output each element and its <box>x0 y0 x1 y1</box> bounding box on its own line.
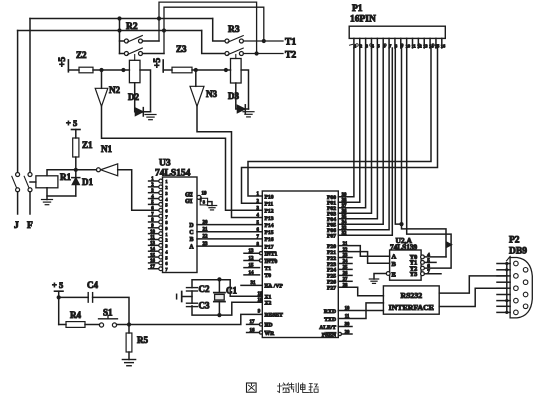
svg-text:5: 5 <box>165 203 168 208</box>
resistor Z2 <box>79 67 93 73</box>
svg-text:16: 16 <box>150 259 155 264</box>
svg-text:RESET: RESET <box>265 313 284 319</box>
wire C4 to reset node <box>93 297 129 324</box>
wire Z3 to coil D3 <box>192 69 231 71</box>
svg-text:/VP: /VP <box>273 284 284 290</box>
capacitor C3 <box>187 302 198 304</box>
svg-text:5: 5 <box>377 43 380 48</box>
svg-text:6: 6 <box>165 261 168 266</box>
wire P27 to RS232 interface <box>338 287 383 295</box>
svg-text:Z3: Z3 <box>176 44 187 54</box>
svg-text:G2: G2 <box>185 193 193 199</box>
caption 路 <box>309 384 318 393</box>
svg-text:C3: C3 <box>199 301 210 311</box>
svg-text:17: 17 <box>150 265 155 270</box>
wire Z3 node to N3 input <box>195 70 197 86</box>
wire rail B drop to R3-b <box>202 31 225 54</box>
svg-text:RS232: RS232 <box>400 291 422 300</box>
crystal C1 <box>214 292 225 294</box>
svg-text:9: 9 <box>165 226 168 231</box>
svg-text:21: 21 <box>203 228 209 233</box>
svg-text:2: 2 <box>165 185 167 190</box>
svg-text:13: 13 <box>423 43 428 48</box>
U3 output pin 1 <box>149 180 161 182</box>
svg-text:3: 3 <box>366 43 369 48</box>
svg-text:20: 20 <box>203 220 209 225</box>
svg-text:16: 16 <box>441 43 446 48</box>
wire enable box to ground <box>208 202 212 206</box>
ground after D2 diode <box>145 114 156 116</box>
relay coil D2 <box>129 60 140 82</box>
contact R3-a <box>225 39 229 43</box>
wire top loop outer <box>159 2 257 53</box>
U3 output pin 17 <box>149 268 161 270</box>
svg-text:P1: P1 <box>352 4 363 14</box>
resistor Z1 <box>73 138 79 157</box>
svg-text:10: 10 <box>150 230 155 235</box>
junction dots on rails <box>157 16 161 20</box>
svg-text:D2: D2 <box>128 92 139 102</box>
svg-text:13: 13 <box>249 249 255 254</box>
svg-text:N1: N1 <box>101 144 112 154</box>
wire rail A drop to R3-a <box>213 19 225 42</box>
svg-text:T1: T1 <box>265 266 272 272</box>
MCU pin 13 INT1 <box>259 252 262 255</box>
svg-text:P16: P16 <box>265 237 274 243</box>
mechanical link D2 to R2 <box>134 55 136 61</box>
svg-text:X2: X2 <box>265 301 272 307</box>
wire +5 branch to C4 <box>59 296 88 298</box>
DB9 holes left column <box>514 261 519 266</box>
svg-text:7: 7 <box>165 267 168 272</box>
U3 output pin 15 <box>149 256 161 258</box>
MCU pin 16 WR <box>259 331 262 334</box>
svg-text:16: 16 <box>250 328 256 333</box>
DB9 shell <box>510 258 532 318</box>
svg-text:Z2: Z2 <box>76 50 87 60</box>
capacitor C2 <box>187 287 198 289</box>
wire R5 to ground <box>128 352 130 360</box>
wire Z2 to coil D2 <box>93 69 129 71</box>
svg-text:C: C <box>189 230 193 236</box>
svg-text:P12: P12 <box>265 209 274 215</box>
wire T2 <box>243 53 283 55</box>
svg-text:D: D <box>189 223 193 229</box>
U3 output pin 13 <box>149 244 161 246</box>
header P1 body <box>349 26 445 38</box>
svg-text:P2: P2 <box>509 236 520 246</box>
U3 output pin 16 <box>149 262 161 264</box>
svg-text:8: 8 <box>165 220 168 225</box>
U2 enable bubble and ground <box>386 272 390 276</box>
svg-text:P14: P14 <box>265 223 274 229</box>
wire D3 bottom to diode <box>236 83 249 109</box>
wire +5 to Z1 <box>75 130 77 139</box>
svg-text:EA: EA <box>265 284 273 290</box>
wire RS232 to DB9 upper <box>439 276 507 293</box>
wire RS232 to DB9 lower <box>439 288 507 306</box>
svg-text:P07: P07 <box>327 234 336 240</box>
svg-text:P10: P10 <box>265 194 274 200</box>
svg-text:U3: U3 <box>159 159 171 169</box>
wire +5 down to R4 <box>58 291 60 324</box>
svg-text:RD: RD <box>265 323 273 329</box>
wire P1 pin15 to MCU P11 <box>242 48 438 203</box>
U3 output pin 7 <box>149 215 161 217</box>
wire R4 to S1 <box>85 324 99 326</box>
svg-text:E: E <box>392 272 396 279</box>
svg-text:6: 6 <box>165 208 168 213</box>
caption 电 <box>301 383 309 393</box>
svg-text:1: 1 <box>165 179 167 184</box>
svg-text:3: 3 <box>165 191 168 196</box>
svg-text:T1: T1 <box>285 38 296 48</box>
svg-text:C1: C1 <box>226 286 237 296</box>
capacitor C4 <box>87 293 89 303</box>
svg-text:+5: +5 <box>58 57 68 67</box>
svg-text:14: 14 <box>249 271 255 276</box>
diode D1 <box>75 170 77 196</box>
wire Z1 to node <box>75 157 77 170</box>
svg-text:P15: P15 <box>265 230 274 236</box>
caption 制 <box>289 383 298 393</box>
inverter N2 <box>95 88 108 106</box>
wire net B (lower horizontal rail y=30.5) <box>18 30 202 32</box>
svg-text:13: 13 <box>150 242 155 247</box>
U3 output pin 10 <box>149 233 161 235</box>
inverter N1 (points left) <box>101 164 118 176</box>
svg-text:16PIN: 16PIN <box>350 15 376 25</box>
svg-text:+ 5: + 5 <box>66 118 77 128</box>
MCU pin 15 T1 <box>244 267 260 269</box>
svg-text:11: 11 <box>150 236 155 241</box>
U3 output pin 4 <box>149 198 161 200</box>
resistor Z3 <box>172 67 192 73</box>
U3 output pin 11 <box>149 239 161 241</box>
svg-text:PSEN: PSEN <box>322 332 336 338</box>
svg-text:4: 4 <box>165 249 168 254</box>
svg-text:11: 11 <box>412 43 416 48</box>
MCU pin 14 T0 <box>244 274 260 276</box>
svg-text:R4: R4 <box>70 310 81 320</box>
RS232 interface body <box>383 286 439 314</box>
wire +5 to R4 left <box>59 324 66 326</box>
diode flyback of D2 <box>135 108 143 116</box>
ground after D3 diode <box>243 111 254 113</box>
wire riser to J switch <box>17 31 19 173</box>
DB9 pin1 tick <box>507 256 511 261</box>
U3 output pin 8 <box>149 221 161 223</box>
caption 控 (control) <box>278 383 290 393</box>
diode flyback of D3 <box>237 105 245 113</box>
wire Y0 stub <box>424 256 446 258</box>
svg-text:22: 22 <box>203 235 209 240</box>
wire D2 flyback right branch <box>140 70 151 112</box>
U3 output pin 2 <box>149 186 161 188</box>
wire R1 bottom to ground <box>47 188 76 196</box>
wire D2 bottom to diode <box>135 83 151 112</box>
wire net A (upper horizontal rail y=18.5) <box>30 18 213 20</box>
svg-text:R2: R2 <box>126 22 138 32</box>
wire riser to F switch <box>29 19 31 173</box>
decoder U2 74LS139 body <box>390 250 422 280</box>
svg-text:R5: R5 <box>137 335 148 345</box>
switch F lower lead <box>29 192 31 214</box>
wire N1 input to U3 output <box>118 170 149 211</box>
ground bars for caps <box>181 292 183 302</box>
P1 pin stubs and numbers <box>353 38 355 48</box>
svg-text:8: 8 <box>203 200 206 205</box>
wire Y1 stub <box>424 261 436 263</box>
resistor R4 <box>66 322 85 328</box>
svg-text:2: 2 <box>165 238 167 243</box>
MCU pin 12 INT0 <box>259 259 262 262</box>
svg-text:15: 15 <box>150 253 155 258</box>
switch J <box>16 173 20 177</box>
resistor R5 <box>128 325 130 334</box>
wire R2 left feed <box>119 19 121 54</box>
DB9 pin leads <box>497 263 510 265</box>
svg-text:C4: C4 <box>87 280 98 290</box>
svg-text:P11: P11 <box>265 202 274 208</box>
svg-text:RXD: RXD <box>324 309 336 315</box>
U3 output pin 6 <box>149 209 161 211</box>
MCU body <box>262 191 338 338</box>
wire cap midpoint to ground stub <box>191 291 193 303</box>
wire R1 to F column <box>30 181 36 183</box>
svg-text:23: 23 <box>203 242 209 247</box>
wire Z2 node to N2 input <box>101 70 103 88</box>
DB9 tie bus <box>506 264 508 313</box>
caption 图 (figure) <box>247 383 257 392</box>
wire S1 to MCU RESET <box>117 314 263 324</box>
svg-text:F: F <box>27 221 33 231</box>
svg-text:T0: T0 <box>265 273 272 279</box>
svg-text:1: 1 <box>165 232 167 237</box>
svg-text:ALE/T: ALE/T <box>319 325 336 331</box>
wire P1 pin14 to MCU P10 <box>248 48 431 196</box>
wire P1 pin8 jog <box>395 48 401 224</box>
switch F <box>28 173 32 177</box>
mechanical link D3 to R3 <box>235 55 237 59</box>
svg-text:R1: R1 <box>60 172 71 182</box>
svg-text:12: 12 <box>249 257 255 262</box>
U3 output pin 14 <box>149 250 161 252</box>
decoder U3 body <box>163 177 198 273</box>
contact R2-a <box>124 39 128 43</box>
switch J lower lead <box>17 192 19 214</box>
svg-text:2: 2 <box>360 43 362 48</box>
wire top loop inner <box>164 7 264 53</box>
svg-text:4: 4 <box>165 197 168 202</box>
svg-text:C2: C2 <box>199 284 210 294</box>
wire Y3 stub <box>424 273 441 275</box>
wire P20 to 74LS139 A <box>338 246 389 257</box>
contact R3-b <box>225 52 229 56</box>
U3 output pin 5 <box>149 203 161 205</box>
inverter N3 <box>190 86 204 106</box>
svg-text:B: B <box>392 261 397 268</box>
wire N3 output to MCU P13 <box>197 106 262 217</box>
svg-text:31: 31 <box>251 281 257 286</box>
svg-text:INTERFACE: INTERFACE <box>389 303 434 312</box>
wire R2-b to top loop <box>143 53 165 55</box>
wire P1 pin9 to 74LS139 Y0 arrow net <box>402 48 447 257</box>
svg-text:N2: N2 <box>109 85 120 95</box>
relay coil D3 <box>231 59 242 84</box>
ground below R1 <box>46 196 48 200</box>
svg-text:N3: N3 <box>206 89 217 99</box>
MCU pin 31 EA/VP <box>241 284 262 286</box>
svg-text:5: 5 <box>165 255 168 260</box>
contact R2-b <box>124 52 128 56</box>
ground below R5 <box>122 359 135 361</box>
svg-text:14: 14 <box>150 247 155 252</box>
wire P21 to 74LS139 B <box>338 252 389 264</box>
arrow on Y0 net <box>447 242 452 247</box>
U3 output pin 3 <box>149 192 161 194</box>
svg-text:P17: P17 <box>265 244 274 250</box>
U3 enable pins bubbles <box>197 195 201 199</box>
MCU pin 17 RD <box>259 323 262 326</box>
wire D3 flyback right branch <box>241 70 248 109</box>
svg-text:INT0: INT0 <box>265 259 278 265</box>
enable network small box <box>200 197 202 201</box>
svg-text:19: 19 <box>202 192 208 197</box>
wire N1 output to relay R1 <box>47 170 96 176</box>
svg-text:15: 15 <box>249 264 255 269</box>
svg-text:A: A <box>392 254 397 261</box>
svg-text:3: 3 <box>165 244 168 249</box>
svg-text:D1: D1 <box>82 177 93 187</box>
svg-text:R3: R3 <box>228 25 240 35</box>
DB9 holes right column <box>523 268 528 273</box>
wire P1 pin10 to 74LS139 Y2 net <box>407 48 451 268</box>
svg-text:Z1: Z1 <box>82 140 93 150</box>
svg-text:Y3: Y3 <box>410 271 418 278</box>
wire N2 output to MCU P12 <box>102 106 263 210</box>
svg-text:P27: P27 <box>327 286 336 292</box>
svg-text:INT1: INT1 <box>265 252 278 258</box>
wire T1 <box>243 40 283 42</box>
svg-text:D3: D3 <box>228 91 239 101</box>
svg-text:7: 7 <box>165 214 168 219</box>
svg-text:G1: G1 <box>185 199 193 205</box>
svg-text:TXD: TXD <box>324 317 336 323</box>
wire crystal bottom rail <box>192 302 262 315</box>
relay coil R1 <box>36 176 58 188</box>
svg-text:DB9: DB9 <box>509 247 527 257</box>
wire crystal top rail <box>192 280 262 297</box>
svg-text:WR: WR <box>265 331 276 337</box>
svg-text:+ 5: + 5 <box>52 280 63 290</box>
wire +5 to Z3 <box>163 69 172 71</box>
svg-text:T2: T2 <box>285 51 296 61</box>
wire R2-a to top loop <box>143 40 160 42</box>
svg-text:B: B <box>190 237 194 243</box>
svg-text:17: 17 <box>250 320 256 325</box>
svg-text:J: J <box>14 221 19 231</box>
svg-text:+5: +5 <box>153 58 163 68</box>
svg-text:P13: P13 <box>265 216 274 222</box>
wire +5 to Z2 <box>68 69 79 71</box>
pushbutton S1 <box>99 323 103 327</box>
ground for U3 enables <box>207 205 216 207</box>
U3 output pin 9 <box>149 227 161 229</box>
svg-text:A: A <box>189 244 194 250</box>
